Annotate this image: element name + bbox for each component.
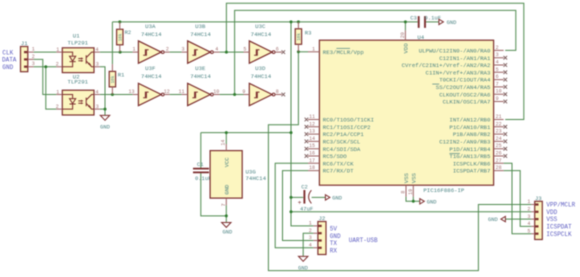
wire RC6 TX pin17 to J2 RX [275,163,313,248]
svg-text:INT/AN12/RB0: INT/AN12/RB0 [449,117,491,124]
svg-text:U3B: U3B [195,23,206,30]
svg-text:RC2/P1A/CCP1: RC2/P1A/CCP1 [323,131,365,138]
svg-text:1: 1 [309,221,312,227]
svg-text:14: 14 [221,140,227,146]
wire VDD to R1 [111,22,113,64]
wire R3 to MCLR pin1 [298,51,308,53]
wire MCLR to J3 pin1 [268,52,531,271]
wire C3 right to ground [426,21,439,23]
ground right of C3 [439,19,456,26]
U4 pin 1 RE3 [308,46,364,56]
svg-text:J2: J2 [318,215,325,222]
svg-text:RE3/MCLR/Vpp: RE3/MCLR/Vpp [323,49,365,56]
svg-text:10: 10 [213,89,219,95]
svg-text:10k: 10k [111,75,116,83]
svg-text:1: 1 [527,199,530,205]
connector J3 ICSP [527,195,542,240]
svg-text:GND: GND [223,230,233,236]
svg-text:R2: R2 [125,29,132,36]
svg-text:CLK: CLK [2,49,13,56]
svg-text:2: 2 [496,45,499,51]
svg-text:C1IN+/Vref+/AN3/RA3: C1IN+/Vref+/AN3/RA3 [426,69,491,76]
svg-text:4: 4 [496,60,499,66]
svg-text:3: 3 [527,214,530,220]
svg-text:74HC14: 74HC14 [141,73,162,80]
svg-text:PIC16F886-IP: PIC16F886-IP [423,187,465,194]
svg-text:13: 13 [128,89,134,95]
svg-text:R3: R3 [305,30,312,37]
svg-text:22: 22 [496,121,502,127]
svg-text:P1B/AN8/RB2: P1B/AN8/RB2 [453,131,491,138]
svg-text:2: 2 [56,62,59,68]
resistor R1 [109,64,125,94]
svg-text:ICSPCLK: ICSPCLK [546,231,572,238]
wire U1.3 down to U2.3 node [100,67,105,109]
svg-text:7: 7 [221,203,227,206]
svg-text:3: 3 [309,235,312,241]
svg-text:U1: U1 [73,32,80,39]
capacitor C2 47uF [298,183,314,212]
inverter U3F 74HC14 [128,65,169,106]
svg-text:13: 13 [309,129,315,135]
wire C2 minus to ground [312,196,326,198]
svg-text:U3D: U3D [255,65,266,72]
svg-text:4: 4 [215,47,218,53]
svg-text:J1: J1 [21,40,28,47]
svg-text:GND: GND [427,199,437,205]
svg-text:P1C/AN10/RB1: P1C/AN10/RB1 [449,124,491,131]
svg-text:2: 2 [32,54,35,60]
wire VDD branch to C1 and U3G VCC [201,132,291,134]
ground at U4 VSS [420,199,437,206]
wire pin20 VDD [404,22,406,31]
ground right of C2 [325,195,342,202]
svg-text:RC0/T1OSO/T1CKI: RC0/T1OSO/T1CKI [323,117,374,124]
capacitor C1 [193,161,211,182]
svg-text:P1D/AN11/RB4: P1D/AN11/RB4 [449,146,491,153]
U4 right pins 21-28 RB0-RB7 [439,114,507,175]
optocoupler U1 TLP291 [56,32,100,72]
svg-text:VSS: VSS [403,172,410,183]
wire U3F.12 to U3E.11 [170,94,182,96]
svg-text:GND: GND [298,265,308,271]
ground at J3 VSS [488,216,505,223]
svg-text:GND: GND [332,196,342,202]
svg-text:25: 25 [496,143,502,149]
svg-text:R1: R1 [118,72,125,79]
svg-text:CLKIN/OSC1/RA7: CLKIN/OSC1/RA7 [443,99,491,106]
U4 right pins 2-9 RA0-RA7 [402,45,507,106]
ground under U3G [222,223,233,236]
wire VDD rail [112,21,417,23]
svg-text:47uF: 47uF [300,205,313,212]
wire RC7 RX pin18 to J2 TX [283,171,314,241]
svg-text:VCC: VCC [223,157,230,168]
wire U3B.4 to U3C.5 [220,51,244,53]
svg-text:U3C: U3C [255,23,266,30]
svg-text:4: 4 [95,47,98,53]
svg-text:ICSPDAT: ICSPDAT [546,224,572,231]
svg-text:3: 3 [96,104,99,110]
svg-text:TLP291: TLP291 [68,79,89,86]
svg-text:15: 15 [309,143,315,149]
svg-text:U4: U4 [417,34,424,41]
svg-text:6: 6 [496,74,499,80]
wire U2.4 to U3F.13 [100,94,133,96]
wire J3 pin3 to ground [505,218,531,220]
svg-text:7: 7 [496,81,499,87]
svg-text:12: 12 [164,89,170,95]
svg-text:RC1/T1OSI/CCP2: RC1/T1OSI/CCP2 [323,124,371,131]
svg-text:17: 17 [309,158,315,164]
svg-text:UART-USB: UART-USB [349,237,378,244]
wire U3G.7 node to ground [225,216,227,223]
svg-text:6: 6 [276,47,279,53]
svg-text:74HC14: 74HC14 [190,73,211,80]
svg-text:RX: RX [330,247,338,254]
svg-text:VPP/MCLR: VPP/MCLR [546,202,575,209]
svg-text:1: 1 [32,47,35,53]
svg-text:19: 19 [408,189,414,195]
svg-text:J3: J3 [535,195,542,202]
svg-text:VDD: VDD [546,209,557,216]
svg-text:1: 1 [56,47,59,53]
svg-text:GND: GND [330,233,341,240]
svg-text:1: 1 [56,89,59,95]
svg-text:GND: GND [2,64,13,71]
svg-text:ICSPDAT/RB7: ICSPDAT/RB7 [453,168,491,175]
svg-text:2: 2 [527,207,530,213]
svg-text:GND: GND [488,217,498,223]
svg-text:5: 5 [496,67,499,73]
svg-text:SS/C2OUT/AN4/RA5: SS/C2OUT/AN4/RA5 [436,84,491,91]
svg-text:4: 4 [527,221,530,227]
wire U2.3 to ground [100,109,105,115]
svg-text:8: 8 [401,191,407,194]
svg-text:C1: C1 [197,161,204,168]
wire DATA J1.2 to U2.1 [34,59,57,94]
svg-text:11: 11 [178,89,184,95]
svg-text:C12IN2-/AN9/RB3: C12IN2-/AN9/RB3 [439,139,491,146]
svg-text:74HC14: 74HC14 [246,175,267,182]
svg-text:16: 16 [309,151,315,157]
svg-text:U3A: U3A [145,23,156,30]
svg-text:2: 2 [56,104,59,110]
svg-text:TLP291: TLP291 [68,39,89,46]
optocoupler U2 TLP291 [56,74,100,116]
svg-text:10k: 10k [118,33,123,41]
svg-text:TX: TX [330,240,338,247]
wire RB6 pin27 to J3 ICSPCLK [504,163,532,233]
svg-text:9: 9 [496,96,499,102]
inverter U3D 74HC14 [242,65,285,106]
svg-text:18: 18 [309,165,315,171]
svg-text:24: 24 [496,136,502,142]
svg-text:5V: 5V [330,225,338,232]
U4 left pins 11-18 RC0-RC7 [305,114,374,175]
svg-text:74HC14: 74HC14 [251,73,272,80]
svg-text:28: 28 [496,165,502,171]
svg-text:VSS: VSS [546,216,557,223]
svg-text:27: 27 [496,158,502,164]
svg-text:14: 14 [309,136,315,142]
svg-text:3: 3 [96,62,99,68]
wire J2 pin2 to ground [303,233,313,256]
inverter U3B 74HC14 [181,23,219,63]
svg-text:11: 11 [309,114,315,120]
svg-text:C3: C3 [410,15,417,22]
wire U1.4 to U3A.1 [100,51,133,53]
svg-text:8: 8 [276,89,279,95]
wire U3G.7 down [225,205,227,216]
inverter U3E 74HC14 [178,65,219,106]
svg-text:0.1uF: 0.1uF [195,175,212,182]
wire VDD vertical [291,22,313,226]
svg-text:3: 3 [32,61,35,67]
inverter U3A 74HC14 [132,23,169,63]
svg-text:T0CKI/C1OUT/RA4: T0CKI/C1OUT/RA4 [439,77,491,84]
svg-text:1: 1 [132,47,135,53]
svg-text:74HC14: 74HC14 [141,31,162,38]
svg-text:12: 12 [309,121,315,127]
svg-text:26: 26 [496,151,502,157]
inverter U3C 74HC14 [243,23,285,63]
wire GND J1.3 to U1.2 and U2.2 [34,67,57,109]
svg-text:4: 4 [309,243,312,249]
ground under U2 [100,115,110,130]
svg-text:3: 3 [181,47,184,53]
svg-text:74HC14: 74HC14 [251,31,272,38]
svg-text:VDD: VDD [402,43,409,54]
svg-text:C12IN1-/AN1/RA1: C12IN1-/AN1/RA1 [439,55,491,62]
wire net B to RA0 pin2 [235,10,516,94]
svg-text:RC5/SDO: RC5/SDO [323,153,347,160]
wire net A to RB0 pin21 [226,3,523,119]
power unit U3G 74HC14 [210,140,266,207]
svg-text:4: 4 [95,89,98,95]
wire U3G.14 up [225,133,227,144]
wire CLK J1.1 to U1.1 [34,51,57,53]
svg-text:RC3/SCK/SCL: RC3/SCK/SCL [323,139,361,146]
wire IC VSS pins to ground [406,197,420,202]
svg-text:CLKOUT/OSC2/RA6: CLKOUT/OSC2/RA6 [439,91,491,98]
svg-text:U3E: U3E [195,65,206,72]
svg-text:21: 21 [496,114,502,120]
capacitor C3 0.1uF [410,15,441,28]
svg-text:ULPWU/C12IN0-/AN0/RA0: ULPWU/C12IN0-/AN0/RA0 [419,48,491,55]
svg-text:10: 10 [496,89,502,95]
svg-text:10k: 10k [297,33,302,41]
svg-text:5: 5 [243,47,246,53]
svg-text:T1G/AN13/RB5: T1G/AN13/RB5 [449,153,491,160]
wire U3E.10 to U3D.9 [220,94,244,96]
wire C1 top [200,133,202,168]
wire VDD branch to J3 pin2 [291,211,531,213]
U4 pins 8,19 VSS bottom [401,172,418,196]
svg-text:23: 23 [496,129,502,135]
svg-text:RC6/TX/CK: RC6/TX/CK [323,160,354,167]
svg-text:2: 2 [309,228,312,234]
svg-text:GND: GND [447,20,457,26]
microcontroller U4 PIC16F886 [319,34,493,194]
svg-text:RC4/SDI/SDA: RC4/SDI/SDA [323,146,361,153]
svg-text:VSS: VSS [410,172,417,183]
ground under J2 [298,256,308,271]
svg-text:1: 1 [312,46,315,52]
resistor R2 [117,22,132,52]
wire U3A.2 to U3B.3 [170,51,182,53]
svg-text:DATA: DATA [2,57,17,64]
resistor R3 [295,22,311,52]
svg-text:5: 5 [527,228,530,234]
svg-text:C2: C2 [301,183,308,190]
connector J1 [21,40,35,71]
U4 pin 20 VDD top [400,30,409,53]
svg-text:GND: GND [100,125,110,131]
wire RB7 pin28 to J3 ICSPDAT [504,171,532,227]
wire C2 plus to VDD [291,196,303,198]
svg-text:3: 3 [496,52,499,58]
svg-text:ICSPCLK/RB6: ICSPCLK/RB6 [453,160,491,167]
svg-text:74HC14: 74HC14 [190,31,211,38]
svg-text:2: 2 [166,47,169,53]
svg-text:20: 20 [400,32,406,38]
svg-text:9: 9 [242,89,245,95]
svg-text:RC7/RX/DT: RC7/RX/DT [323,168,354,175]
wire C1 bottom to U3G.7 node [201,173,227,216]
svg-text:CVref/C2IN1+/Vref-/AN2/RA2: CVref/C2IN1+/Vref-/AN2/RA2 [402,62,491,69]
svg-text:U3F: U3F [145,65,156,72]
connector J2 UART-USB [309,215,326,254]
svg-text:GND: GND [223,184,230,195]
